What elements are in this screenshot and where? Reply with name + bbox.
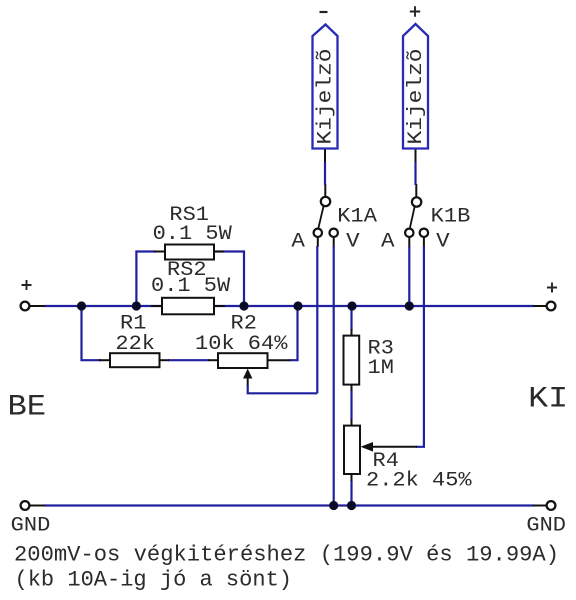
- terminal GND left: [21, 501, 30, 510]
- display Kijelzo2 symbol: [403, 24, 428, 149]
- svg-text:V: V: [346, 230, 360, 253]
- switch K1A contact V circle: [330, 229, 338, 237]
- resistor R1 box: [110, 353, 160, 367]
- svg-text:K1A: K1A: [337, 206, 377, 229]
- plus sign at KI terminal: [547, 283, 557, 293]
- wire RS2 stubs on main bus: [151, 305, 225, 307]
- wire main bus black stubs: [30, 305, 547, 307]
- svg-text:K1B: K1B: [431, 206, 471, 229]
- node junction dots on main bus: [77, 301, 414, 310]
- potentiometer R2 box: [218, 353, 268, 368]
- plus sign at BE terminal: [22, 280, 32, 290]
- wire K1B contact A down to main bus: [408, 237, 410, 247]
- terminal GND right: [547, 501, 556, 510]
- resistor RS1 box: [165, 245, 214, 260]
- switch K1A contact A circle: [314, 229, 322, 237]
- svg-text:2.2k 45%: 2.2k 45%: [366, 470, 473, 493]
- svg-text:KI: KI: [528, 383, 568, 417]
- wire R3 R4 chain: [350, 306, 352, 506]
- wire R2 wiper to K1A contact A: [247, 377, 249, 386]
- switch K1B contact V circle: [420, 229, 428, 237]
- wire RS1 black stubs: [154, 251, 224, 253]
- svg-text:Kijelzõ: Kijelzõ: [405, 49, 428, 145]
- resistor R3 box: [344, 336, 360, 385]
- wire GND bus: [44, 504, 534, 506]
- wire R4 wiper stem black: [372, 446, 417, 448]
- switch K1B common circle: [412, 197, 421, 206]
- wire main bus BE+ to KI+: [44, 305, 534, 307]
- wire K1A contact A down: [317, 237, 319, 247]
- potentiometer R2 wiper arrow: [243, 369, 252, 379]
- svg-text:GND: GND: [526, 515, 566, 538]
- plus sign above Kijelzo2: [410, 6, 420, 16]
- minus sign above Kijelzo1: [320, 11, 328, 13]
- resistor RS2 box: [162, 298, 214, 315]
- switch K1B contact A circle: [405, 229, 413, 237]
- wire RS1 branch: [136, 252, 244, 307]
- terminal BE+: [21, 302, 30, 311]
- svg-text:200mV-os végkitéréshez (199.9V: 200mV-os végkitéréshez (199.9V és 19.99A…: [14, 543, 559, 568]
- svg-text:V: V: [436, 230, 450, 253]
- wire Kijelzo1 to K1A common: [324, 149, 326, 197]
- svg-text:1M: 1M: [368, 357, 394, 380]
- svg-text:22k: 22k: [115, 333, 155, 356]
- node junction dots on GND bus: [329, 501, 356, 510]
- switch K1A lever: [318, 206, 323, 228]
- svg-text:(kb 10A-ig jó a sönt): (kb 10A-ig jó a sönt): [15, 568, 293, 593]
- wire GND bus black stubs: [30, 505, 547, 507]
- wire Kijelzo2 to K1B common: [415, 149, 418, 198]
- wire K1A contact V down to GND bus: [333, 237, 335, 247]
- display Kijelzo1 symbol: [313, 25, 338, 149]
- svg-text:0.1 5W: 0.1 5W: [153, 223, 232, 246]
- svg-text:10k 64%: 10k 64%: [195, 333, 288, 356]
- potentiometer R4 wiper arrow: [361, 442, 374, 452]
- svg-text:A: A: [381, 230, 395, 253]
- switch K1A common circle: [321, 197, 330, 206]
- switch K1B lever: [410, 207, 415, 229]
- svg-text:BE: BE: [8, 391, 47, 425]
- svg-text:0.1 5W: 0.1 5W: [151, 275, 230, 298]
- svg-text:A: A: [291, 230, 305, 253]
- potentiometer R4 box: [344, 426, 360, 474]
- svg-text:GND: GND: [11, 515, 51, 538]
- wire R1 R2 black stubs: [99, 359, 290, 361]
- wire K1B contact V down to R4 wiper: [423, 237, 425, 247]
- wire R1 R2 branch: [82, 306, 298, 360]
- svg-text:Kijelzõ: Kijelzõ: [314, 49, 337, 145]
- terminal KI+: [547, 302, 556, 311]
